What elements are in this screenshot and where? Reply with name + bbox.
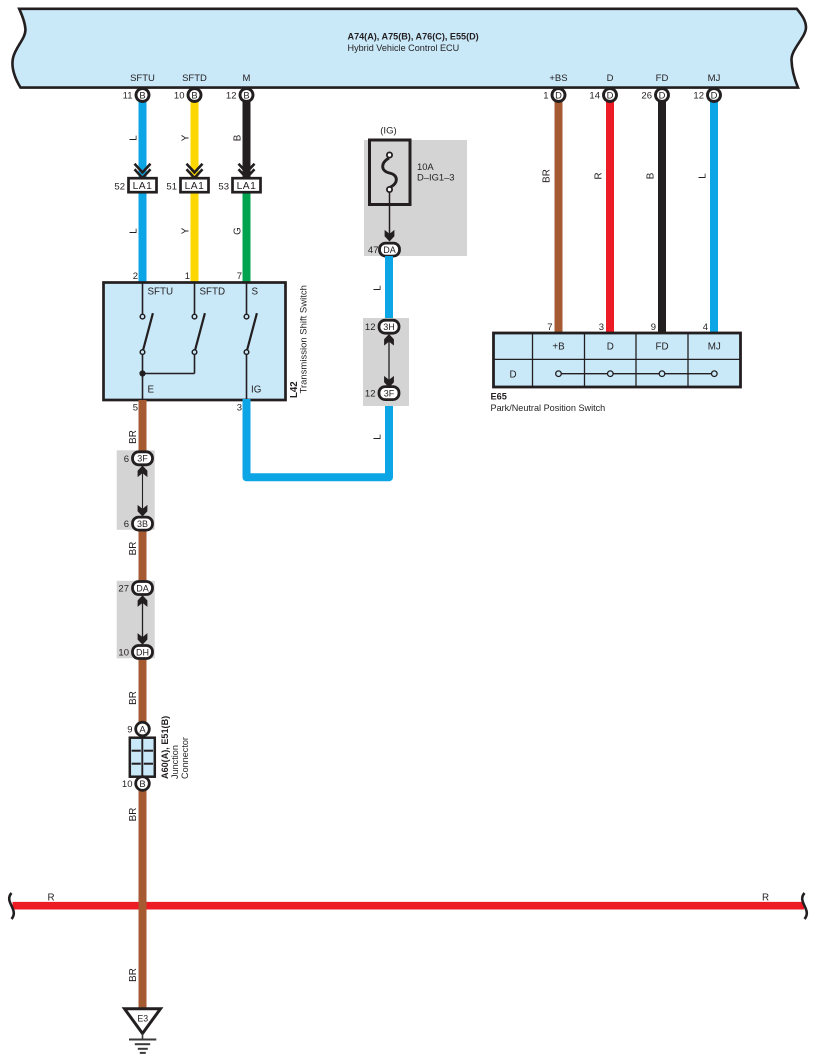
svg-text:D: D [659, 89, 666, 100]
svg-text:47: 47 [368, 245, 379, 256]
ECU pin 10(B) SFTD [174, 73, 207, 102]
svg-text:9: 9 [127, 725, 132, 736]
switch SFTU inside L42 [140, 283, 173, 400]
switch SFTD inside L42 [143, 283, 226, 374]
ground E3 [125, 1009, 161, 1053]
junction dot inside L42 [139, 370, 145, 376]
svg-text:MJ: MJ [708, 73, 721, 84]
svg-text:SFTD: SFTD [182, 73, 207, 84]
chevron arrow into connector 53 LA1 [239, 164, 255, 178]
svg-text:B: B [191, 89, 197, 100]
wire label Y on yellow wire [181, 134, 192, 141]
svg-text:10: 10 [174, 90, 185, 101]
wire label G below LA1 [233, 227, 244, 235]
svg-text:D: D [509, 369, 516, 380]
wire label BR below junction connector [128, 808, 139, 822]
svg-text:D: D [607, 89, 614, 100]
svg-text:3B: 3B [137, 519, 148, 529]
svg-text:BR: BR [128, 968, 139, 982]
svg-text:3H: 3H [383, 322, 395, 332]
svg-text:G: G [233, 227, 244, 235]
ECU pin 26(D) FD [641, 73, 668, 102]
label Transmission Shift Switch (rotated) [299, 285, 310, 393]
wire L (blue) from 3F down and across to L42 pin 3 (IG) [247, 399, 390, 477]
svg-text:12: 12 [365, 389, 376, 400]
svg-text:FD: FD [655, 342, 668, 353]
chevron arrow into connector 51 LA1 [187, 164, 203, 178]
wire label R on D wire [594, 172, 605, 179]
svg-text:M: M [243, 73, 251, 84]
svg-text:LA1: LA1 [133, 181, 153, 192]
svg-text:L: L [129, 228, 140, 234]
svg-text:Connector: Connector [180, 737, 190, 779]
wire BR (brown) from 3B to DA [139, 518, 147, 593]
fuse output lead with arrow [385, 192, 395, 242]
wire label B on black wire [233, 134, 244, 141]
svg-text:D: D [711, 89, 718, 100]
wire R (red) from ECU pin D to E65 pin 3 [606, 101, 614, 334]
svg-text:Y: Y [181, 134, 192, 141]
svg-text:12: 12 [365, 322, 376, 333]
wire label L on blue wire [129, 135, 140, 141]
svg-text:D–IG1–3: D–IG1–3 [417, 172, 455, 183]
wire Y (yellow) from ECU pin SFTD to LA1 and L42 pin 1 [191, 101, 199, 284]
connector 12 3H [365, 320, 399, 333]
svg-text:3: 3 [237, 403, 242, 414]
svg-text:Park/Neutral Position Switch: Park/Neutral Position Switch [491, 403, 606, 413]
label E65 [491, 391, 507, 401]
contact line with terminals inside E65 [556, 371, 717, 377]
svg-text:+B: +B [552, 342, 565, 353]
mating arrows between 3F and 3B [138, 466, 148, 517]
terminal label IG inside L42 [251, 385, 261, 396]
junction connector pin 10 B [122, 777, 149, 791]
wire label L between DA and 3H [373, 285, 384, 291]
svg-text:L: L [698, 173, 709, 179]
wire label B on FD wire [646, 172, 657, 179]
svg-text:27: 27 [118, 584, 129, 595]
label Park/Neutral Position Switch [491, 403, 606, 413]
svg-text:A: A [139, 723, 146, 734]
pin number 3 at L42 bottom [237, 403, 242, 414]
pin number 7 at E65 [547, 322, 552, 333]
svg-text:DH: DH [136, 647, 149, 657]
svg-text:BR: BR [128, 808, 139, 822]
svg-text:BR: BR [542, 169, 553, 183]
svg-text:5: 5 [133, 403, 138, 414]
svg-text:SFTU: SFTU [148, 287, 174, 298]
connector 6 3F [124, 452, 153, 465]
svg-text:R: R [762, 893, 769, 904]
svg-text:2: 2 [133, 271, 138, 282]
pin number 1 at L42 [185, 271, 190, 282]
ECU pin 1(D) +BS [543, 73, 567, 102]
svg-text:1: 1 [543, 90, 548, 101]
connector 10 DH [118, 646, 152, 659]
chevron arrow into connector 52 LA1 [135, 164, 151, 178]
svg-text:Transmission Shift Switch: Transmission Shift Switch [299, 285, 310, 393]
label Junction (rotated) [170, 745, 180, 779]
connector pair 3F / 3B background [117, 450, 155, 530]
svg-text:BR: BR [128, 542, 139, 556]
svg-text:10: 10 [122, 779, 133, 790]
pin number 4 at E65 [703, 322, 708, 333]
svg-text:12: 12 [693, 90, 704, 101]
svg-text:26: 26 [641, 90, 652, 101]
svg-text:BR: BR [128, 691, 139, 705]
svg-text:Hybrid Vehicle Control ECU: Hybrid Vehicle Control ECU [348, 43, 460, 53]
junction connector A60(A), E51(B) grid [130, 738, 155, 777]
svg-text:A60(A), E51(B): A60(A), E51(B) [160, 716, 170, 779]
connector 51 LA1 [166, 178, 208, 192]
wire B (black) from ECU pin M to LA1 [243, 101, 251, 185]
mating arrows between DA and DH [138, 595, 148, 644]
svg-text:S: S [252, 287, 259, 298]
connector 52 LA1 [114, 178, 156, 192]
wire BR (brown) from ECU pin +BS to E65 pin 7 [555, 101, 563, 334]
left continuation wave of red bus [9, 893, 14, 919]
svg-text:7: 7 [237, 271, 242, 282]
svg-text:E: E [148, 385, 155, 396]
wire L (blue) from DA to 3H [385, 256, 393, 322]
wire label BR between 3B and DA [128, 542, 139, 556]
svg-text:10A: 10A [417, 161, 434, 172]
wire B (black) from ECU pin FD to E65 pin 9 [658, 101, 666, 334]
svg-text:D: D [555, 89, 562, 100]
svg-text:D: D [607, 342, 614, 353]
connector pair 3H / 3F background [363, 318, 409, 406]
svg-text:6: 6 [124, 454, 129, 465]
pin number 9 at E65 [651, 322, 656, 333]
svg-text:51: 51 [166, 182, 177, 193]
ECU pin 11(B) SFTU [123, 73, 155, 102]
connector 27 DA [118, 582, 152, 595]
wire L (blue) from ECU pin SFTU to LA1 and L42 pin 2 [139, 101, 147, 284]
wire R (red) horizontal bus [13, 902, 805, 910]
svg-text:R: R [48, 893, 55, 904]
pin number 3 at E65 [599, 322, 604, 333]
connector pair DA / DH background [117, 581, 155, 659]
svg-text:Y: Y [181, 227, 192, 234]
mating arrows between 3H and 3F [384, 334, 394, 388]
svg-text:SFTD: SFTD [200, 287, 226, 298]
svg-text:B: B [646, 172, 657, 179]
svg-text:LA1: LA1 [185, 181, 205, 192]
terminal label E inside L42 [148, 385, 155, 396]
svg-text:1: 1 [185, 271, 190, 282]
fuse block background (IG) [364, 126, 467, 257]
svg-text:B: B [139, 778, 145, 789]
svg-text:L: L [373, 285, 384, 291]
ECU pin 14(D) D [589, 73, 616, 102]
pin number 2 at L42 [133, 271, 138, 282]
ECU block A74(A), A75(B), A76(C), E55(D) Hybrid Vehicle Control ECU [12, 9, 806, 88]
svg-text:L: L [129, 135, 140, 141]
svg-text:10: 10 [118, 648, 129, 659]
svg-text:DA: DA [383, 245, 396, 255]
wire label Y below LA1 [181, 227, 192, 234]
svg-text:SFTU: SFTU [130, 73, 155, 84]
fuse 10A D-IG1-3 [370, 140, 455, 205]
svg-text:E65: E65 [491, 391, 507, 401]
svg-text:(IG): (IG) [380, 126, 397, 137]
svg-text:3F: 3F [137, 454, 148, 464]
wire label L below 3F [373, 434, 384, 440]
wire label BR on +BS wire [542, 169, 553, 183]
svg-text:MJ: MJ [708, 342, 721, 353]
wire label L below LA1 [129, 228, 140, 234]
switch box E65 Park/Neutral Position Switch [494, 333, 741, 387]
svg-text:6: 6 [124, 519, 129, 530]
connector 47 DA [368, 243, 400, 256]
pin number 5 at L42 bottom [133, 403, 138, 414]
svg-text:3: 3 [599, 322, 604, 333]
wire G (green) from LA1 to L42 pin 7 [243, 185, 251, 284]
svg-text:9: 9 [651, 322, 656, 333]
wire label BR above 3F [128, 430, 139, 444]
svg-text:3F: 3F [384, 388, 395, 398]
svg-text:52: 52 [114, 182, 125, 193]
label L42 (rotated) [289, 381, 300, 398]
right continuation wave of red bus [802, 893, 807, 919]
wire BR (brown) from L42 pin 5 (E) to 3F [139, 400, 147, 463]
svg-text:B: B [139, 89, 145, 100]
switch box L42 Transmission Shift Switch [104, 283, 286, 401]
svg-text:IG: IG [251, 385, 261, 396]
switch S inside L42 [244, 283, 258, 400]
svg-text:14: 14 [589, 90, 600, 101]
svg-text:A74(A), A75(B), A76(C), E55(D): A74(A), A75(B), A76(C), E55(D) [348, 31, 479, 41]
svg-text:11: 11 [123, 90, 133, 101]
svg-text:Junction: Junction [170, 745, 180, 779]
wire BR (brown) from DH to junction connector A [139, 646, 147, 734]
svg-text:FD: FD [656, 73, 669, 84]
connector 6 3B [124, 517, 153, 530]
wire label BR between DH and junction connector [128, 691, 139, 705]
connector 53 LA1 [218, 178, 260, 192]
svg-text:DA: DA [136, 583, 149, 593]
svg-text:53: 53 [218, 182, 229, 193]
svg-text:12: 12 [226, 90, 237, 101]
ECU pin 12(D) MJ [693, 73, 720, 102]
ECU pin 12(B) M [226, 73, 253, 102]
pin number 7 at L42 [237, 271, 242, 282]
label Connector (rotated) [180, 737, 190, 779]
svg-text:BR: BR [128, 430, 139, 444]
wire L (blue) from ECU pin MJ to E65 pin 4 [710, 101, 718, 334]
wire label R right [762, 893, 769, 904]
wire BR (brown) from junction connector B to ground E3 [139, 778, 147, 1009]
label A60(A), E51(B) (rotated) [160, 716, 170, 779]
svg-text:E3: E3 [137, 1014, 148, 1024]
svg-text:D: D [607, 73, 614, 84]
wire label L on MJ wire [698, 173, 709, 179]
wire label R left [48, 893, 55, 904]
svg-text:7: 7 [547, 322, 552, 333]
svg-text:LA1: LA1 [237, 181, 257, 192]
svg-text:L: L [373, 434, 384, 440]
svg-text:4: 4 [703, 322, 708, 333]
connector 12 3F [365, 387, 399, 400]
wire label BR above ground [128, 968, 139, 982]
svg-text:R: R [594, 172, 605, 179]
svg-text:+BS: +BS [549, 73, 567, 84]
junction connector pin 9 A [127, 722, 149, 736]
svg-text:B: B [233, 134, 244, 141]
svg-text:B: B [243, 89, 249, 100]
